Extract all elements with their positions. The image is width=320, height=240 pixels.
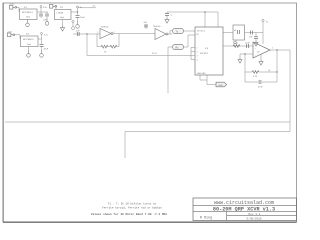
- svg-text:2: 2: [197, 52, 198, 54]
- notes text: [91, 202, 168, 216]
- svg-text:4.7K: 4.7K: [253, 76, 258, 78]
- svg-text:10uF: 10uF: [245, 43, 250, 45]
- svg-text:uF: uF: [234, 30, 237, 32]
- wire VFO output vertical: [289, 50, 291, 132]
- ground IC1: [26, 20, 30, 27]
- wire feedback loop: [244, 50, 277, 82]
- svg-text:X1: X1: [104, 52, 107, 54]
- capacitor C8 1uF: [249, 31, 253, 39]
- svg-text:MCP1800-5: MCP1800-5: [23, 39, 35, 41]
- ground IC2 (triangle): [60, 20, 64, 32]
- wire J1 to IC1: [16, 6, 19, 8]
- connector J2 9V input: [50, 5, 57, 9]
- wire U1B out to Tx tag: [168, 33, 172, 35]
- capacitor C5 .1uF: [76, 31, 81, 37]
- regulator IC2 L78L08: [55, 7, 72, 20]
- svg-text:+9v: +9v: [92, 6, 95, 8]
- resistor R2: [233, 43, 240, 47]
- resistor R1 1M feedback: [97, 34, 119, 54]
- svg-text:3: 3: [197, 56, 198, 58]
- ground C7: [165, 17, 169, 23]
- inverter U1B 74HC04: [153, 26, 168, 40]
- wire X2 to detector: [223, 32, 233, 34]
- svg-text:1: 1: [197, 48, 198, 50]
- wire U2 inputs: [223, 46, 253, 57]
- node +3.3v: [40, 6, 47, 13]
- wire enclosure left: [124, 132, 126, 159]
- wire long bus: [5, 121, 290, 123]
- svg-text:3.3v: 3.3v: [43, 7, 47, 9]
- svg-text:www.circuitsalad.com: www.circuitsalad.com: [214, 200, 274, 206]
- svg-text:(1): (1): [268, 70, 271, 72]
- wire U1A out: [113, 33, 155, 35]
- IC4 left lower pin stubs: [191, 48, 195, 60]
- wire Rx tag left: [168, 47, 172, 93]
- svg-text:IC1: IC1: [24, 7, 28, 9]
- wire osc feedback down: [86, 34, 88, 56]
- svg-text:74HC04: 74HC04: [101, 27, 109, 29]
- capacitor C4 100uF: [40, 45, 49, 51]
- svg-text:10uF: 10uF: [44, 49, 49, 51]
- svg-text:3.5-4: 3.5-4: [152, 53, 157, 55]
- svg-text:GND GND: GND GND: [197, 73, 206, 75]
- svg-text:Rev 1.3: Rev 1.3: [249, 213, 261, 216]
- svg-text:5.0v: 5.0v: [44, 35, 48, 37]
- regulator IC3 MCP1800-5: [21, 34, 39, 47]
- svg-text:1: 1: [272, 48, 273, 50]
- svg-text:FST3253: FST3253: [200, 53, 208, 55]
- capacitor C1: [39, 12, 43, 18]
- connector J3 +12V: [7, 32, 15, 37]
- ground C3: [76, 21, 80, 28]
- crystal X2 in can: [233, 25, 245, 44]
- svg-text:Gnd: Gnd: [60, 17, 64, 19]
- wire J2 to IC2: [55, 6, 57, 9]
- capacitor C9 bypass: [254, 33, 258, 47]
- node +9v detector: [262, 19, 268, 44]
- ground C4: [40, 50, 44, 57]
- svg-text:IC3: IC3: [26, 34, 30, 36]
- ground C2: [45, 18, 49, 25]
- svg-text:+12V: +12V: [7, 32, 12, 34]
- op-amp U2: [253, 42, 270, 58]
- svg-text:.1: .1: [170, 15, 173, 17]
- svg-text:MCP1800-3: MCP1800-3: [22, 12, 34, 14]
- wire U2 output: [270, 48, 290, 51]
- capacitor C6 .1uF bypass: [143, 22, 148, 29]
- tag Tx: [173, 28, 184, 33]
- title block: [193, 198, 297, 221]
- ground U2: [259, 54, 263, 65]
- svg-text:VD 74C 1: VD 74C 1: [197, 31, 205, 33]
- svg-text:.1uF: .1uF: [76, 31, 81, 33]
- wire IC2 out to +9v node: [71, 11, 78, 13]
- wire +9v rail: [78, 7, 97, 9]
- wire osc output bus: [87, 55, 191, 57]
- svg-text:1uF: 1uF: [43, 20, 47, 22]
- svg-text:4: 4: [197, 60, 198, 62]
- svg-text:U2: U2: [257, 52, 259, 54]
- tag GND: [216, 82, 227, 87]
- wire osc input: [73, 33, 100, 35]
- resistor R3 4.7K: [252, 70, 271, 78]
- svg-text:GND: GND: [218, 85, 223, 87]
- svg-text:ferrite toroid, ferrite rod or: ferrite toroid, ferrite rod or bobbin: [102, 206, 162, 210]
- wire IC1 out: [37, 11, 48, 13]
- wire enclosure top: [125, 131, 290, 133]
- wire J3 to IC3: [14, 34, 20, 36]
- svg-text:10uF: 10uF: [80, 17, 85, 19]
- IC4 mixer SA612: [195, 27, 223, 75]
- svg-text:IC2: IC2: [60, 7, 64, 9]
- svg-text:.1uF: .1uF: [143, 22, 148, 24]
- ground IC3: [27, 47, 31, 58]
- svg-text:Values shown for 40 Meter Band: Values shown for 40 Meter Band 7.00 -7.3…: [91, 212, 168, 216]
- svg-text:L78L08: L78L08: [57, 13, 65, 15]
- capacitor C11 47uF: [258, 80, 263, 89]
- node 9v osc feed: [72, 20, 75, 29]
- svg-text:+: +: [255, 48, 256, 50]
- capacitor C2 1uF: [43, 12, 49, 22]
- svg-text:-: -: [255, 55, 256, 57]
- connector J1 +12V input: [9, 4, 17, 9]
- ground U2 +input: [238, 57, 242, 63]
- svg-text:+12V: +12V: [9, 4, 14, 6]
- svg-text:80-20M QRP XCVR v1.3: 80-20M QRP XCVR v1.3: [213, 206, 275, 212]
- junction node osc: [86, 33, 87, 34]
- svg-text:IC6: IC6: [205, 48, 209, 50]
- node +5v out: [38, 33, 48, 45]
- wire tags to mixer: [184, 31, 196, 47]
- svg-text:IN: IN: [197, 34, 199, 36]
- IC4 top supply wiring: [167, 11, 218, 27]
- svg-text:Gnd: Gnd: [26, 17, 30, 19]
- svg-text:9v: 9v: [266, 22, 268, 24]
- capacitor C3 10uF: [76, 16, 86, 21]
- svg-text:Gnd: Gnd: [27, 44, 31, 46]
- capacitor C7 .1uF: [165, 12, 173, 17]
- svg-text:T1 - 7: 5t 10 bifilar turns on: T1 - 7: 5t 10 bifilar turns on: [108, 202, 157, 206]
- svg-text:1uF: 1uF: [249, 37, 253, 39]
- IC4 bottom gnd stubs: [197, 73, 216, 85]
- svg-text:R Ring: R Ring: [200, 216, 212, 221]
- node +9v: [77, 6, 83, 15]
- svg-text:5/30/2015: 5/30/2015: [247, 216, 262, 220]
- capacitor C10 10uF: [245, 43, 250, 49]
- svg-text:74HC04: 74HC04: [153, 26, 161, 28]
- svg-text:47uF: 47uF: [258, 87, 263, 89]
- svg-text:148: 148: [234, 43, 238, 45]
- inverter U1A 74HC04: [97, 27, 115, 39]
- regulator IC1 MCP1700-3302E: [20, 7, 38, 20]
- tag Rx: [173, 44, 184, 49]
